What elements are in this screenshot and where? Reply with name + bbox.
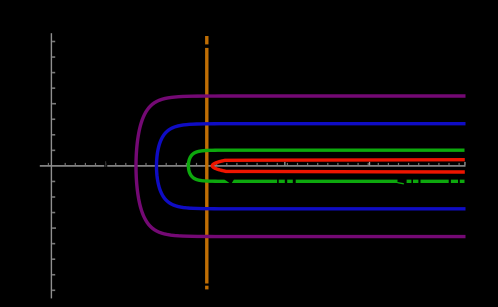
blue contour [157,124,466,209]
red contour (hairpin) [212,160,464,172]
y-axis ticks [52,41,56,291]
major ticks [284,162,285,165]
y-axis [51,33,52,298]
black label cut-outs on green curve [224,175,460,185]
dark major tick at x=105 [104,165,107,167]
purple contour [136,96,466,237]
x-axis [40,165,466,167]
green contour [188,150,464,181]
orange dash-dot vertical line [205,36,208,289]
x-axis ticks [48,163,49,165]
green sliver under label [398,183,404,184]
